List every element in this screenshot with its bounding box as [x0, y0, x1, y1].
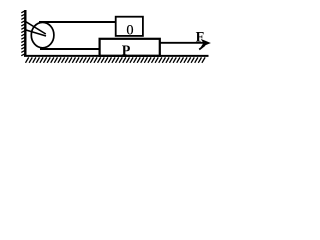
- svg-text:F: F: [196, 30, 205, 46]
- svg-text:O: O: [126, 23, 133, 39]
- svg-text:P: P: [122, 43, 131, 59]
